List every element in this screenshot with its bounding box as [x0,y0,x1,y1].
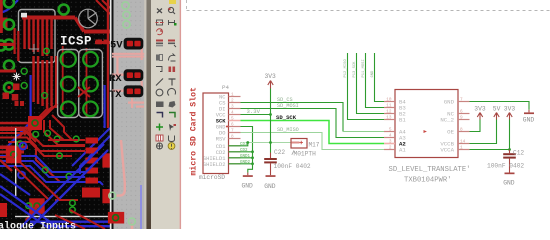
svg-text:7: 7 [231,129,234,134]
row6: group / paste [156,67,162,72]
wire 3.3V to VCC [241,114,271,116]
svg-text:6: 6 [231,123,234,128]
wire SD_SCK highlighted [241,121,385,144]
scattered small rings [17,131,79,213]
svg-text:P12_MISO: P12_MISO [344,59,348,78]
svg-text:3V3: 3V3 [504,106,516,113]
svg-text:GND: GND [503,180,515,187]
svg-text:10: 10 [386,98,392,103]
svg-text:GND: GND [444,99,455,106]
red pad block bottom [108,212,124,224]
wire CD1 to M17 [229,143,248,146]
pale green rings top [122,2,130,28]
white smd rect [21,13,27,18]
svg-text:VCCA: VCCA [440,147,454,154]
circle symbol [79,9,98,28]
net P12_MISO vertical [348,53,385,120]
crosshair mark [29,44,39,54]
wire GND pin7 to ground [470,102,530,110]
gray component outline [19,10,56,63]
gray outside-board panel [114,0,146,229]
svg-text:SD_MISO: SD_MISO [277,127,299,133]
svg-text:2: 2 [231,99,234,104]
svg-text:RSV: RSV [216,137,226,143]
red square pad 1 [6,146,22,164]
svg-text:12: 12 [386,110,392,115]
svg-text:ICSP: ICSP [60,35,92,49]
purple vertical [140,185,142,229]
row12: bus grid / cut [156,135,163,141]
green pad column [0,0,14,93]
svg-text:4: 4 [389,134,392,139]
junction VCCA/C12 [508,148,511,151]
svg-text:P4: P4 [222,84,229,91]
red trace to 5V pad [95,41,124,44]
asterisk mark [13,73,21,81]
blue diagonals bottom left [0,174,60,229]
wire SHIELD1 [229,157,253,159]
svg-text:5V: 5V [110,40,123,52]
RX pad block [124,69,144,81]
svg-text:100nF 0402: 100nF 0402 [487,162,524,169]
wire SD_MISO [241,133,385,150]
wire VCCA to 3V3 [470,120,510,150]
red stub through pad [0,43,14,46]
svg-text:3.3V: 3.3V [247,108,261,115]
blue horizontals under white line [30,221,111,223]
ground GND left [247,173,249,176]
ICSP connector outlines [58,50,79,118]
splitter pink line [180,0,182,229]
junction SHIELD2 [251,162,254,165]
red horizontal left [0,70,16,73]
red pads right of circle [96,40,103,45]
svg-text:5: 5 [231,117,234,122]
IC pin names [399,99,406,154]
wire SD_MOSI [241,109,385,138]
svg-text:C12: C12 [513,149,524,156]
IC left pin stubs [384,102,395,150]
extra red traces bottom-left [0,140,78,200]
row2: display / mark [157,20,163,25]
connector P4 microSD [203,93,229,174]
svg-text:M17: M17 [309,141,320,148]
svg-text:M01PTH: M01PTH [294,150,317,157]
vertical trace stripes lower [32,56,57,108]
svg-text:GND1: GND1 [240,155,251,159]
svg-text:9: 9 [460,116,463,121]
svg-text:5V: 5V [493,106,501,113]
row7: wire / text [156,79,163,86]
svg-text:8: 8 [460,128,463,133]
frame dashed border [187,0,550,11]
svg-text:SD_LEVEL_TRANSLATE': SD_LEVEL_TRANSLATE' [389,166,471,174]
red horizontals top band [0,122,36,125]
svg-text:14: 14 [460,140,466,145]
row13: errors / warn [157,143,163,149]
nested red elbows to QFP [0,120,85,182]
svg-text:RX: RX [109,73,122,85]
svg-text:GND2: GND2 [240,161,251,165]
IC pin numbers right [460,98,466,151]
svg-text:3: 3 [231,105,234,110]
svg-text:13: 13 [386,116,392,121]
row4: copy stacks [156,40,163,42]
ground GND under C22 [266,175,276,177]
small rings pair [21,68,27,74]
partial icon top [169,0,176,4]
blue nested elbows [0,128,110,185]
svg-text:TX: TX [109,89,122,101]
svg-text:TXB0104PWR': TXB0104PWR' [404,177,451,185]
vertical trace stripes upper [23,18,53,56]
junction CD2 [251,150,254,153]
svg-text:micro SD Card Slot: micro SD Card Slot [189,87,199,176]
red horizontals bottom-left [0,146,28,150]
net GND vertical [375,53,385,102]
IC pin numbers left [386,98,392,151]
row1: info X / show [157,9,162,14]
wire OE to 3V3 [470,120,481,132]
row3: change [157,29,164,35]
svg-text:7: 7 [460,98,463,103]
blue arc trace top-left [0,0,18,13]
svg-text:NC_2: NC_2 [440,117,454,124]
svg-text:11: 11 [386,104,392,109]
blue via rings [20,143,27,150]
pin numbers P4 [231,93,234,140]
header M17 M01PTH [291,139,307,149]
row5: mirror / rotate [156,55,159,61]
svg-text:C22: C22 [274,149,285,156]
capacitor C22 [270,143,272,153]
wire 3V3 to C22/M17 net [270,115,272,143]
wire GND from pin6 [241,127,253,173]
wire 3V3 down [270,89,272,115]
row10: corners [157,113,163,118]
right edge vertical traces [107,0,109,128]
svg-text:5: 5 [389,128,392,133]
GND pin marker dot [226,126,228,128]
red square pad 2 [29,198,45,214]
svg-text:8: 8 [231,135,234,140]
svg-text:SD_SCK: SD_SCK [276,114,297,121]
svg-text:100nF 0402: 100nF 0402 [274,163,311,170]
red bits bottom [0,160,12,171]
ICSP pads 2x3 [61,52,98,117]
svg-text:3V3: 3V3 [474,106,486,113]
svg-text:CD2: CD2 [240,149,248,153]
row9: rect / polygon [156,102,164,108]
window border [144,0,146,229]
svg-text:SD_MOSI: SD_MOSI [277,103,299,109]
svg-text:2: 2 [389,146,392,151]
svg-text:SHIELD2: SHIELD2 [203,162,226,168]
TX pad block [124,85,144,97]
IC U1 level translator box [395,90,458,158]
wire SD_CS [241,103,344,132]
svg-text:4: 4 [231,111,234,116]
row11: junction green + / name [156,124,163,131]
QFP pad column [82,138,110,204]
board edge white line [110,0,112,229]
svg-text:GND: GND [371,70,375,78]
wire VCCB to 5V [470,120,497,144]
svg-text:P11_MOSI: P11_MOSI [362,59,366,77]
svg-text:3V3: 3V3 [265,73,277,80]
svg-text:GND: GND [523,116,535,123]
svg-text:alogue Inputs: alogue Inputs [0,221,76,230]
svg-text:B1: B1 [399,117,406,124]
svg-text:6: 6 [460,110,463,115]
left red bar [0,0,3,33]
junction SHIELD1 [251,156,254,159]
small green ring w red [44,48,50,54]
white outline vertical + horizontal [15,128,16,196]
svg-text:3: 3 [389,140,392,145]
row8: circle / arc [156,89,163,96]
junction 3V3/VCC [269,113,272,116]
top green ring near ICSP [59,5,69,15]
svg-text:A1: A1 [399,147,406,154]
svg-text:OE: OE [447,129,454,136]
IC right pin stubs [458,102,470,150]
IC origin marker [424,130,427,133]
svg-text:GND: GND [264,183,276,190]
blue verticals mid [30,75,32,122]
junction at C22 top [269,141,272,144]
ground GND under C12 [505,173,515,175]
red bus top [22,16,75,20]
capacitor C12 [509,150,511,154]
net labels CD group [240,143,251,165]
5V pad block [124,38,144,50]
bottom pink curve + rings [116,140,125,196]
svg-text:1: 1 [231,93,234,98]
svg-text:CD1: CD1 [240,143,248,147]
red square pad upper [28,116,42,130]
svg-text:P13_SCK: P13_SCK [353,61,357,78]
svg-text:1: 1 [460,146,463,151]
pin names P4 [203,95,226,168]
pin stubs P4 [229,97,241,164]
net P13_SCK vertical [357,53,385,114]
pale red traces [112,46,145,108]
wire SHIELD2 [229,163,253,165]
blue diagonals bottom right [20,144,108,228]
svg-text:microSD: microSD [199,174,225,181]
svg-text:GND: GND [242,183,254,190]
small red pads diagonal [3,84,25,107]
diag red bundle from stripes to bottom-left [18,104,57,140]
toolbar [151,0,180,229]
junction CD1 [246,141,249,144]
red vertical between ICSP columns [86,48,88,118]
wire CD2 [229,151,253,153]
ground GND top right [528,110,530,113]
net P11_MOSI vertical [366,53,385,108]
red X between pads [78,87,90,97]
